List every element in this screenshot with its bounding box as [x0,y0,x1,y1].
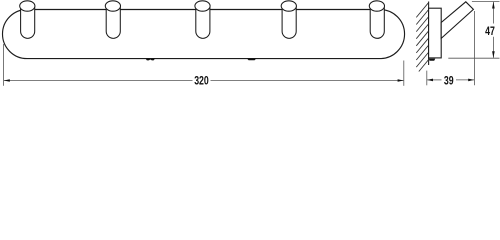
dimension 47: top extension line [472,1,500,3]
dimension 47: dimension line upper segment [492,2,494,24]
mounting tab left (under plate) [145,59,155,61]
dimension 320: dimension line right segment [211,80,404,82]
dimension 39: dimension line left segment [427,79,441,81]
dimension 320: dimension line left segment [4,80,193,82]
dimension 39: left arrowhead [427,79,433,82]
dimension 39: right extension line [473,11,475,85]
dimension 39: right arrowhead [468,79,474,82]
svg-text:47: 47 [485,25,495,39]
peg 5 [369,1,384,39]
rail plate (front view, stadium outline) [2,10,404,59]
svg-text:39: 39 [444,74,454,87]
dimension 47: bottom arrowhead [492,51,495,58]
svg-text:320: 320 [194,74,209,87]
dimension 320: right arrowhead [398,79,404,82]
peg 1 (hook, front view) [20,1,35,39]
rail plate cross-section (side view) [429,8,442,58]
mounting tab right (under plate) [247,58,257,60]
dimension 47: bottom extension line [448,57,499,59]
peg 4 [281,1,296,39]
peg (side view, angled hook) [441,2,473,39]
peg 3 [195,1,210,39]
dimension 320: left arrowhead [4,79,10,82]
wall hatching [416,2,429,71]
wall line (side view) [428,2,430,66]
dimension 47: top arrowhead [492,2,495,9]
dimension 47: dimension line lower segment [492,37,494,58]
plate bottom cap (black) [429,59,436,61]
dimension 320: right extension line [403,61,405,86]
peg 2 [105,1,120,39]
dimension 39: dimension line right segment [456,79,474,81]
dimension 39: left extension line [426,71,428,86]
dimension 320: left extension line [3,44,5,86]
